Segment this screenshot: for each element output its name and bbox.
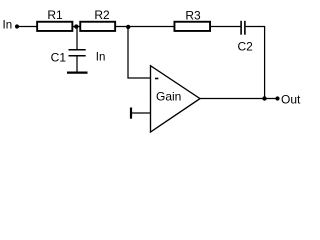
svg-text:R1: R1	[47, 8, 63, 22]
wire R3 to C2	[211, 26, 242, 28]
resistor R2	[80, 8, 115, 31]
wire C1 branch (junction down to C1)	[76, 27, 78, 51]
svg-text:In: In	[96, 51, 106, 63]
ground (bar terminator at non-inverting input)	[130, 108, 132, 119]
svg-text:R3: R3	[185, 9, 201, 23]
wire op-amp non-inverting input stub	[131, 112, 150, 114]
node junction R1/R2/C1	[74, 24, 78, 28]
wire op-amp output to Out	[200, 98, 278, 100]
svg-text:R2: R2	[94, 8, 110, 22]
svg-text:Gain: Gain	[156, 89, 181, 103]
wire C2 to output (right and down)	[246, 27, 265, 99]
node junction R2/R3/op-amp input	[126, 25, 130, 29]
wire R2 to R3	[116, 26, 175, 28]
node Out (output terminal)	[275, 92, 301, 106]
node junction C2/output	[262, 96, 266, 100]
op-amp U1 (Gain block)	[151, 66, 201, 132]
node In (input terminal)	[3, 20, 20, 32]
svg-text:C2: C2	[238, 40, 254, 54]
svg-text:In: In	[3, 20, 13, 32]
wire R1 to R2	[73, 26, 80, 28]
wire C1 to ground	[76, 56, 78, 72]
resistor R1	[37, 8, 72, 31]
wire junction down to op-amp inverting input	[128, 27, 150, 79]
svg-text:Out: Out	[281, 92, 301, 106]
wire In terminal to R1	[17, 26, 37, 28]
ground (below C1)	[67, 71, 88, 73]
svg-text:C1: C1	[51, 51, 67, 65]
capacitor C2	[238, 21, 254, 54]
resistor R3	[174, 9, 210, 31]
capacitor C1	[51, 50, 86, 65]
